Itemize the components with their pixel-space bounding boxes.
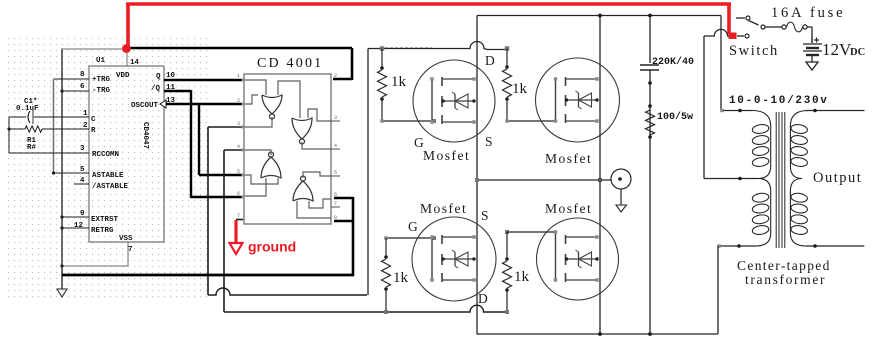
svg-text:CD4047: CD4047 <box>141 122 149 149</box>
capacitor 220K/40 <box>649 16 651 64</box>
red ground arrow annotation <box>234 220 237 243</box>
svg-text:VDD: VDD <box>116 72 130 80</box>
wire OSCOUT pin13 <box>160 100 166 108</box>
svg-text:D: D <box>485 53 495 68</box>
wire node to CD4001 pin (x208) <box>208 126 243 128</box>
svg-text:DC: DC <box>850 47 865 58</box>
ground symbol left <box>57 289 67 297</box>
gate U2D nor <box>293 181 313 201</box>
svg-text:5: 5 <box>334 170 337 176</box>
svg-text:G: G <box>408 219 418 234</box>
svg-text:D: D <box>478 291 488 306</box>
scan remnant dashes <box>385 47 432 49</box>
svg-text:10-0-10/230v: 10-0-10/230v <box>729 95 829 107</box>
node dots top rail <box>598 14 602 18</box>
svg-text:1k: 1k <box>393 270 409 286</box>
svg-text:220K/40: 220K/40 <box>652 56 694 68</box>
wire +TRG pin8 <box>54 78 90 80</box>
red node square at switch <box>729 33 737 40</box>
resistor R 1k (M1 gate) <box>380 46 385 51</box>
fuse 16A <box>766 26 782 28</box>
svg-text:+TRG: +TRG <box>92 76 111 84</box>
svg-text:3: 3 <box>80 145 85 153</box>
svg-text:12V: 12V <box>822 40 852 59</box>
svg-text:Q: Q <box>156 73 161 81</box>
primary bottom return <box>719 245 756 247</box>
transistor Q3 Mosfet (bottom-left) <box>412 217 496 301</box>
svg-text:7: 7 <box>237 213 240 219</box>
left MOSFET column vertical <box>476 16 478 335</box>
CD4001 right pin stubs <box>331 120 340 122</box>
wire from switch node left with hop <box>704 29 729 36</box>
IC U1 CD4047 body <box>89 66 164 242</box>
transistor Q4 Mosfet (bottom-right) <box>537 218 619 300</box>
svg-text:Output: Output <box>813 170 862 186</box>
wire /ASTABLE pin4 stub <box>74 183 89 185</box>
svg-text:1k: 1k <box>514 269 530 285</box>
gate internal wiring <box>244 80 266 95</box>
svg-text:S: S <box>485 134 493 149</box>
battery ground <box>806 62 818 70</box>
wire -TRG pin6 <box>62 90 89 92</box>
svg-text:-TRG: -TRG <box>92 87 111 95</box>
wire VDD box right drop <box>351 48 354 80</box>
svg-text:1k: 1k <box>391 74 407 90</box>
wire CD4001 right to ground rail <box>352 197 355 276</box>
svg-text:1: 1 <box>237 73 240 79</box>
svg-text:7: 7 <box>128 246 133 254</box>
transistor Q1 Mosfet (top-left) <box>413 60 495 142</box>
svg-text:3: 3 <box>334 115 337 121</box>
svg-text:Mosfet: Mosfet <box>423 148 470 163</box>
svg-text:Center-tapped: Center-tapped <box>737 258 831 273</box>
wire OSCOUT branch down <box>198 103 200 175</box>
svg-text:EXTRST: EXTRST <box>91 216 119 224</box>
svg-text:S: S <box>481 208 489 223</box>
wire RETRG pin12 <box>62 227 89 229</box>
svg-text:RETRG: RETRG <box>91 227 114 235</box>
svg-text:/ASTABLE: /ASTABLE <box>92 183 129 191</box>
svg-text:VSS: VSS <box>119 235 133 243</box>
node RC left vertical <box>8 117 10 153</box>
svg-text:C: C <box>91 116 96 124</box>
svg-text:16A fuse: 16A fuse <box>771 5 845 21</box>
wire VSS pin7 <box>127 242 129 266</box>
svg-text:Mosfet: Mosfet <box>545 151 592 166</box>
svg-text:CD 4001: CD 4001 <box>257 56 323 71</box>
source mid rail <box>477 179 611 181</box>
transformer secondary winding <box>790 124 808 135</box>
svg-text:8: 8 <box>80 71 85 79</box>
wire node to CD4001 pin (x224) <box>224 149 243 151</box>
gate U2C nor <box>261 157 281 178</box>
svg-text:2: 2 <box>334 73 337 79</box>
svg-text:4: 4 <box>334 143 337 149</box>
resistor R 1k (M4 gate) <box>505 230 509 234</box>
right MOSFET column vertical <box>599 16 601 335</box>
wire Q pin10 to CD4001 <box>164 79 243 81</box>
svg-text:6: 6 <box>80 83 85 91</box>
gray top rail to VDD node <box>61 48 127 50</box>
left frame vertical rail <box>61 49 63 289</box>
transformer core <box>775 112 777 248</box>
ground reference node circle <box>611 169 631 189</box>
svg-text:12: 12 <box>74 222 84 230</box>
bottom drain rail <box>477 333 718 335</box>
svg-text:R: R <box>91 127 96 135</box>
svg-text:U1: U1 <box>96 57 106 65</box>
rail to gate resistor (y312) <box>224 305 505 312</box>
svg-text:Mosfet: Mosfet <box>420 201 467 216</box>
svg-text:transformer: transformer <box>745 272 826 287</box>
svg-text:7: 7 <box>334 201 337 207</box>
wire RCCOMN pin3 <box>9 152 89 154</box>
red junction node at U1 VDD <box>122 44 131 53</box>
resistor R 1k (M2 gate) <box>505 46 510 51</box>
wire ASTABLE pin5 <box>54 172 90 174</box>
resistor R1 (horizontal) <box>9 128 25 130</box>
secondary output leads <box>806 110 865 112</box>
transistor Q2 Mosfet (top-right) <box>536 58 620 142</box>
node dots bottom rail <box>598 332 602 336</box>
svg-text:R#: R# <box>27 144 37 152</box>
transformer primary winding <box>752 124 770 135</box>
IC CD4001 body <box>244 74 331 224</box>
svg-text:Mosfet: Mosfet <box>545 201 592 216</box>
red VDD supply wire top <box>126 2 731 6</box>
CD 4001 label box top wire <box>126 47 352 50</box>
capacitor C1 0.1uF <box>9 116 26 118</box>
frame left vertical <box>367 49 369 296</box>
wire /Q pin11 routing <box>164 90 191 92</box>
svg-text:ASTABLE: ASTABLE <box>92 172 124 180</box>
wire EXTRST pin9 <box>62 216 89 218</box>
rail to H-bridge frame (y295) <box>208 288 367 295</box>
battery 12VDC <box>811 27 813 43</box>
gate pull-up rail y48 <box>368 42 507 50</box>
wire VDD pin14 <box>126 49 128 66</box>
switch <box>736 17 745 19</box>
gate U2B nor <box>292 118 312 139</box>
primary top feed vertical <box>720 16 722 111</box>
svg-text:OSCOUT: OSCOUT <box>131 102 159 110</box>
svg-text:0.1uF: 0.1uF <box>16 105 39 113</box>
svg-text:/Q: /Q <box>151 85 161 93</box>
svg-text:100/5w: 100/5w <box>657 111 693 123</box>
wire ground rail bottom thick <box>62 274 354 277</box>
CD4001 pin7 stub <box>236 219 243 221</box>
svg-text:RCCOMN: RCCOMN <box>92 151 119 159</box>
svg-text:4: 4 <box>237 144 240 150</box>
wire battery feed down to center tap <box>703 36 705 179</box>
resistor 100/5w <box>646 110 655 135</box>
drain top rail <box>477 15 721 17</box>
resistor R 1k (M3 gate) <box>386 237 434 239</box>
gate U2A nor <box>262 95 282 114</box>
svg-text:1k: 1k <box>512 81 528 97</box>
svg-text:14: 14 <box>130 59 140 67</box>
svg-text:3: 3 <box>237 121 240 127</box>
svg-text:Switch: Switch <box>729 43 779 59</box>
svg-text:ground: ground <box>248 239 296 255</box>
